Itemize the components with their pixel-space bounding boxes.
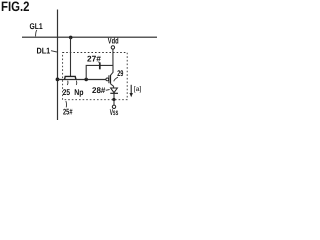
svg-text:25#: 25#	[63, 106, 73, 116]
label 29	[114, 68, 124, 82]
diode 28#	[110, 88, 118, 100]
figure title FIG.2	[1, 0, 30, 14]
current arrow [a]	[130, 85, 142, 97]
svg-text:Vss: Vss	[110, 107, 119, 117]
svg-text:28#: 28#	[92, 85, 106, 95]
label 27#	[87, 53, 101, 64]
svg-text:FIG.2: FIG.2	[1, 0, 30, 14]
label 28#	[92, 85, 110, 95]
data line DL1 (wire)	[57, 10, 59, 121]
power terminal Vdd	[108, 35, 119, 49]
svg-text:29: 29	[117, 68, 123, 78]
svg-text:Np: Np	[74, 87, 83, 97]
label DL1	[37, 45, 57, 55]
label GL1	[30, 21, 44, 36]
junction dot at dashed border crossing	[112, 98, 115, 101]
junction dot node Np	[84, 78, 88, 82]
transistor 27# (bar)	[99, 62, 101, 69]
dashed box 25# (pixel circuit boundary)	[63, 53, 128, 100]
svg-text:[a]: [a]	[134, 86, 142, 93]
wire riser from Np to 27# branch	[86, 65, 113, 79]
wire gate lead of transistor 25	[70, 37, 72, 76]
power terminal Vss	[110, 100, 119, 118]
transistor 29	[106, 75, 114, 88]
wire Vdd down to transistor 29	[111, 49, 114, 75]
junction dot on GL1 (gate tap)	[69, 36, 73, 40]
wire node Np horizontal run	[58, 79, 106, 81]
label Np (node)	[74, 81, 83, 98]
label 25#	[63, 101, 73, 116]
svg-text:25: 25	[63, 87, 71, 97]
svg-text:GL1: GL1	[30, 21, 44, 31]
svg-text:Vdd: Vdd	[108, 35, 119, 45]
junction dot on DL1 (source tap)	[56, 78, 60, 82]
label 25	[63, 81, 71, 98]
transistor 25 (gate hat)	[65, 76, 76, 79]
gate line GL1 (wire)	[22, 36, 157, 38]
svg-text:DL1: DL1	[37, 45, 51, 55]
